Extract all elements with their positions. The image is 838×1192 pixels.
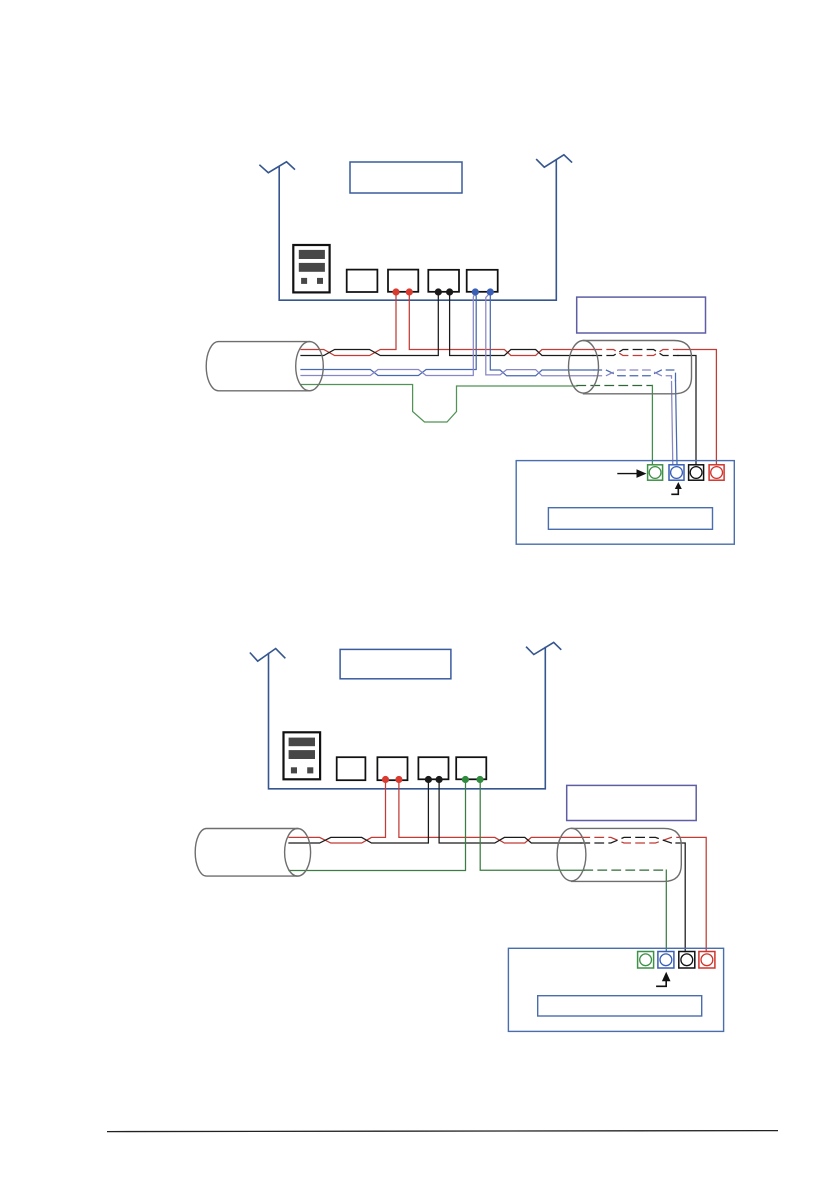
- terminal green G: [648, 465, 663, 480]
- label box L3: [548, 508, 712, 530]
- wire blue dashed in cable: [594, 370, 676, 381]
- port J13: [418, 757, 448, 779]
- wire black out 2: [439, 780, 581, 844]
- connector module J10: [284, 732, 321, 779]
- wire green in 2: [289, 780, 466, 871]
- terminal red R: [709, 465, 724, 480]
- arrow to blue terminal 2: [657, 972, 671, 987]
- footer rule: [107, 1131, 778, 1132]
- node blue dot C1: [472, 288, 479, 295]
- arrow to blue terminal: [672, 482, 682, 494]
- device U2 outline: [269, 648, 546, 789]
- terminal blue B: [669, 465, 684, 480]
- wire black in: [301, 292, 438, 356]
- cable W2 right sheath: [557, 828, 681, 881]
- wire black dashed in cable: [593, 350, 678, 356]
- antenna ANT4: [527, 642, 561, 654]
- wire purple out: [486, 293, 594, 376]
- node black dot B2: [446, 288, 453, 295]
- node red dot A2: [406, 288, 413, 295]
- label box L2: [577, 297, 706, 333]
- wire red out 2: [399, 780, 581, 844]
- cable W1 right sheath: [569, 341, 692, 394]
- port J1: [347, 270, 378, 292]
- node blue dot C2: [487, 288, 494, 295]
- wire red drop: [677, 350, 716, 465]
- wire red dashed in cable: [593, 350, 677, 356]
- wire black in 2: [289, 780, 428, 844]
- node green dot F1: [462, 776, 469, 783]
- antenna ANT3: [250, 649, 284, 662]
- port J3: [428, 270, 459, 292]
- terminal block TB1: [516, 461, 734, 545]
- node red dot A1: [392, 288, 399, 295]
- wire red drop 2: [680, 837, 706, 951]
- node black dot E2: [436, 776, 443, 783]
- wire purple dashed in cable: [594, 370, 672, 382]
- port J14: [456, 757, 486, 779]
- device U1 outline: [279, 161, 556, 301]
- wire green drop 2: [665, 870, 667, 951]
- terminal blue B2: [658, 952, 674, 969]
- node black dot B1: [435, 288, 442, 295]
- wire green dashed in cable: [577, 385, 652, 387]
- terminal black K2: [679, 952, 695, 969]
- wire blue drop: [676, 381, 678, 465]
- wire purple drop: [672, 382, 673, 465]
- connector module J0: [293, 245, 329, 292]
- terminal green G2: [638, 952, 654, 969]
- port J11: [337, 757, 366, 780]
- label box L6: [538, 996, 702, 1016]
- node red dot D2: [395, 776, 402, 783]
- terminal block TB2: [508, 948, 723, 1031]
- label box L1: [350, 162, 462, 193]
- wire green out 2: [480, 780, 584, 871]
- terminal red R2: [699, 952, 715, 969]
- node black dot E1: [425, 776, 432, 783]
- wire black drop: [678, 356, 696, 465]
- port J2: [388, 270, 418, 292]
- antenna ANT2: [537, 155, 572, 167]
- wire black drop 2: [676, 843, 685, 952]
- antenna ANT1: [260, 162, 294, 173]
- wire red in: [301, 292, 396, 356]
- wire green with service loop: [301, 385, 577, 423]
- wire green drop: [651, 386, 653, 465]
- cable W1 left sheath: [206, 342, 323, 391]
- label box L5: [567, 785, 697, 820]
- arrow to green terminal: [618, 469, 647, 478]
- label box L4: [340, 649, 451, 678]
- node green dot F2: [476, 776, 483, 783]
- port J12: [377, 757, 407, 780]
- wire red in 2: [289, 780, 386, 844]
- wire black out: [450, 292, 593, 356]
- wire purple in: [301, 293, 475, 376]
- wire blue out: [490, 293, 594, 376]
- wire black dashed in cable 2: [581, 837, 676, 843]
- wire red out: [409, 292, 593, 356]
- wire red dashed in cable 2: [581, 837, 680, 843]
- wire green dashed in cable 2: [584, 869, 666, 871]
- wire blue in: [301, 293, 476, 376]
- port J4: [467, 270, 498, 292]
- node red dot D1: [382, 776, 389, 783]
- terminal black K: [689, 465, 704, 480]
- cable W2 left sheath: [195, 829, 310, 877]
